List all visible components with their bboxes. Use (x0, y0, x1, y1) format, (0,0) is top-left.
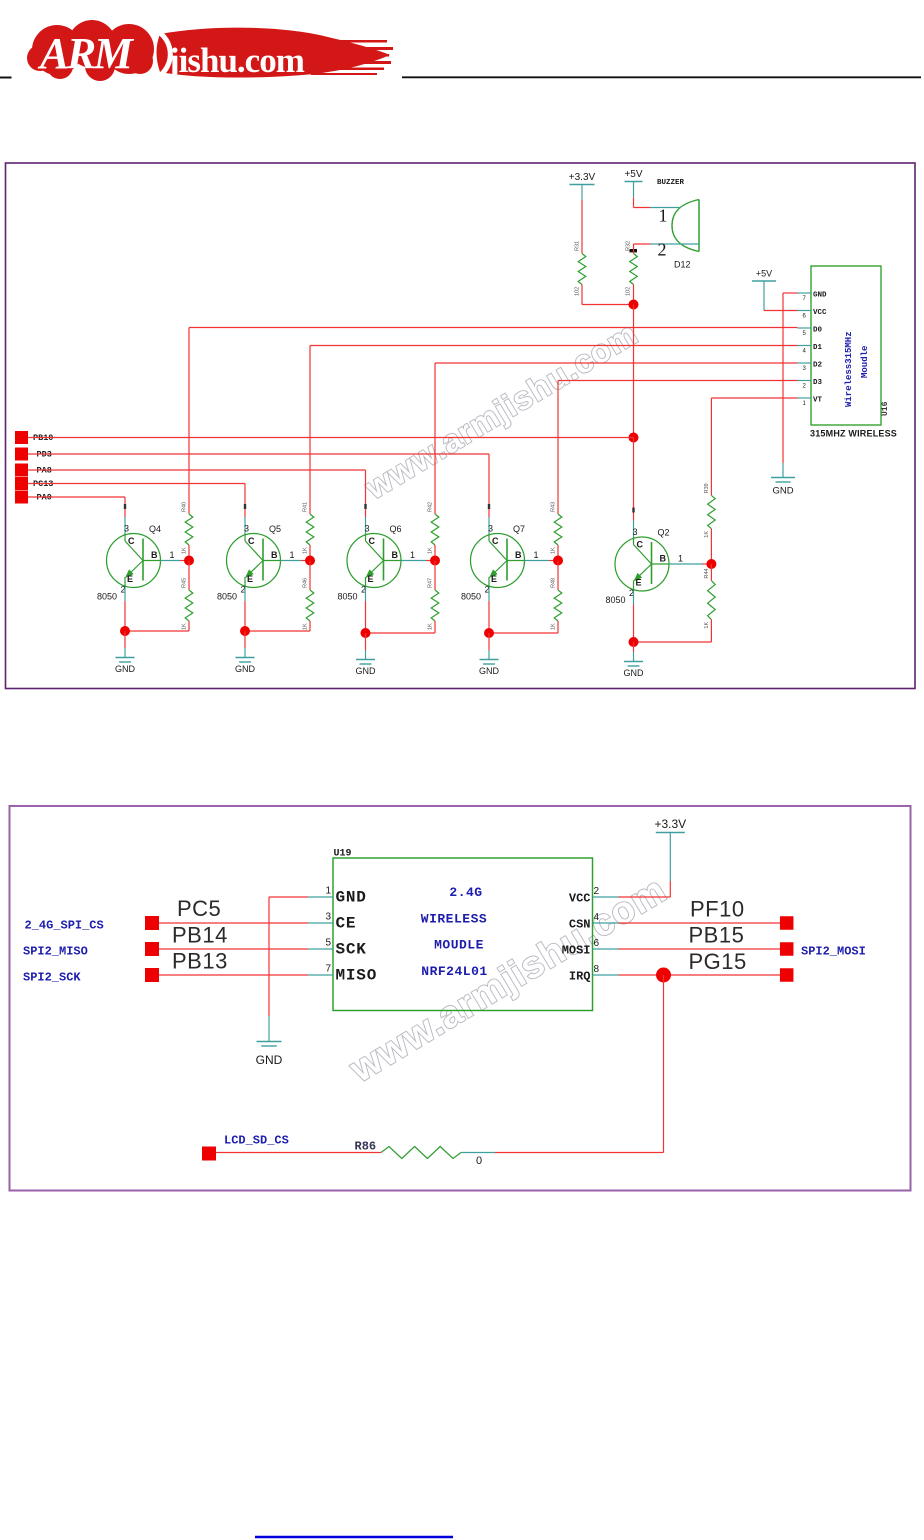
resistor R32 (626, 241, 638, 296)
wire PB10 to node B (28, 437, 634, 439)
svg-text:1K: 1K (551, 547, 557, 554)
wire R86 to LCD_SD_CS (216, 1152, 381, 1154)
wire +3.3V to R31 (581, 200, 583, 254)
U16 pin 5 D0 (798, 327, 823, 338)
wire R42 to base node (434, 545, 436, 561)
svg-text:D3: D3 (813, 379, 823, 387)
module U16 315MHZ WIRELESS (810, 266, 897, 439)
wire +5V to U16 VCC (764, 310, 798, 312)
svg-text:+3.3V: +3.3V (569, 172, 596, 183)
net label LCD_SD_CS (202, 1134, 289, 1161)
schematic frame 1 (6, 163, 916, 689)
svg-text:GND: GND (772, 486, 793, 497)
svg-text:Q5: Q5 (269, 524, 281, 534)
wire R39 to base node (710, 529, 712, 564)
wire emitter Q4 (124, 588, 126, 632)
resistor R46 (303, 578, 314, 630)
svg-text:1: 1 (290, 550, 295, 560)
wire R31 to node A (582, 285, 633, 305)
svg-text:8050: 8050 (461, 592, 481, 602)
svg-text:jishu.com: jishu.com (167, 41, 305, 80)
svg-text:R41: R41 (303, 502, 309, 512)
svg-text:R31: R31 (575, 241, 581, 251)
wire bus D2 (435, 363, 798, 514)
net label SPI2_SCK (23, 968, 159, 985)
svg-text:PC5: PC5 (177, 896, 221, 921)
svg-text:VCC: VCC (569, 892, 591, 906)
svg-text:2.4G: 2.4G (449, 885, 482, 900)
svg-text:1: 1 (659, 206, 668, 226)
wire bus D3 (558, 381, 798, 515)
net square PG15 (780, 968, 794, 982)
svg-text:1K: 1K (428, 547, 434, 554)
Q4 base wire (161, 560, 190, 562)
svg-text:E: E (247, 574, 253, 584)
svg-text:GND: GND (336, 889, 367, 907)
svg-text:C: C (369, 536, 376, 546)
svg-text:8: 8 (594, 964, 600, 975)
wire SCK net (159, 948, 308, 950)
svg-text:R39: R39 (704, 483, 710, 493)
svg-text:B: B (392, 550, 399, 560)
svg-text:D12: D12 (674, 260, 691, 270)
node Q6 emitter junction (361, 628, 371, 638)
wire base node to R45 (188, 561, 190, 591)
node Q2 base junction (706, 559, 716, 569)
svg-text:Q6: Q6 (390, 524, 402, 534)
svg-text:4: 4 (803, 349, 807, 355)
svg-text:D1: D1 (813, 344, 823, 352)
svg-text:PF10: PF10 (690, 897, 745, 922)
wire IRQ net (619, 974, 781, 976)
svg-text:R86: R86 (355, 1140, 377, 1154)
svg-text:www.armjishu.com: www.armjishu.com (358, 315, 644, 507)
header rule right (402, 76, 921, 78)
svg-text:3: 3 (365, 524, 370, 534)
svg-text:1K: 1K (704, 531, 710, 538)
svg-text:GND: GND (235, 664, 256, 674)
wire R41 to base node (309, 545, 311, 561)
svg-text:R42: R42 (428, 502, 434, 512)
U19 pin 7 MISO (308, 964, 377, 985)
U19 pin 2 VCC (569, 886, 619, 906)
node Q7 base junction (553, 556, 563, 566)
wire R40 to base node (188, 545, 190, 561)
Q5 base wire (281, 560, 311, 562)
resistor R86 (355, 1140, 483, 1168)
svg-text:+5V: +5V (624, 169, 642, 180)
power +3.3V (569, 172, 596, 200)
transistor Q4 (97, 504, 175, 602)
svg-text:7: 7 (325, 964, 331, 975)
svg-text:3: 3 (325, 912, 331, 923)
wire PC13 to Q5 collector (28, 484, 245, 518)
resistor R42 (428, 502, 439, 554)
Q6 base wire (401, 560, 435, 562)
svg-text:D2: D2 (813, 362, 823, 370)
svg-text:1: 1 (803, 401, 807, 407)
svg-text:R46: R46 (303, 578, 309, 588)
schematic frame 2 (10, 806, 911, 1191)
svg-text:3: 3 (633, 527, 638, 537)
wire CE net (159, 922, 308, 924)
svg-text:2: 2 (658, 240, 667, 260)
svg-text:R32: R32 (626, 241, 632, 251)
svg-text:GND: GND (356, 666, 377, 676)
ground Q7 (488, 633, 490, 650)
node A junction (629, 300, 639, 310)
svg-text:2: 2 (594, 886, 600, 897)
wire base node to R47 (434, 561, 436, 591)
svg-text:Moudle: Moudle (860, 346, 870, 378)
svg-text:1: 1 (325, 886, 331, 897)
svg-text:3: 3 (803, 366, 807, 372)
svg-text:IRQ: IRQ (569, 970, 591, 984)
U16 pin 7 GND (798, 292, 828, 303)
module U19 NRF24L01 (333, 849, 593, 1011)
svg-text:SPI2_MISO: SPI2_MISO (23, 945, 88, 959)
svg-text:MISO: MISO (336, 967, 378, 985)
resistor R40 (182, 502, 193, 554)
net label PA0 (15, 491, 52, 504)
node Q5 emitter junction (240, 626, 250, 636)
svg-text:1: 1 (170, 550, 175, 560)
net label SPI2_MISO (23, 942, 159, 959)
svg-text:R48: R48 (551, 578, 557, 588)
resistor R39 (704, 483, 715, 537)
wire R48 to emitter node (489, 621, 558, 633)
footer link rule (255, 1536, 453, 1539)
wire R47 to emitter node (366, 621, 436, 633)
wire bus D0 (189, 328, 798, 515)
svg-text:1K: 1K (551, 623, 557, 630)
wire node A to node B (633, 305, 635, 438)
svg-text:8050: 8050 (606, 595, 626, 605)
svg-text:VCC: VCC (813, 309, 827, 317)
svg-text:CE: CE (336, 915, 357, 933)
resistor R44 (704, 569, 715, 629)
U19 pin 5 SCK (308, 938, 367, 959)
resistor R48 (551, 578, 562, 630)
ground Q2 (633, 642, 635, 652)
wire buzzer pin 2 to R32 (634, 244, 651, 254)
wire U16 GND to ground (783, 293, 798, 463)
svg-text:R47: R47 (428, 578, 434, 588)
buzzer D12 (650, 179, 699, 270)
net label PB10 (15, 431, 53, 444)
svg-text:SPI2_SCK: SPI2_SCK (23, 971, 81, 985)
svg-text:8050: 8050 (338, 592, 358, 602)
wire +3.3V to U19 VCC (619, 881, 671, 897)
node Q4 emitter junction (120, 626, 130, 636)
wire PD3 to Q7 collector (28, 454, 489, 517)
svg-text:GND: GND (479, 666, 500, 676)
wire bus D1 (310, 346, 798, 515)
svg-text:D0: D0 (813, 327, 823, 335)
svg-text:5: 5 (325, 938, 331, 949)
svg-text:GND: GND (256, 1053, 283, 1067)
header rule left (0, 77, 12, 79)
svg-text:1K: 1K (303, 547, 309, 554)
wire U19 GND to ground (269, 897, 308, 1016)
svg-text:GND: GND (115, 664, 136, 674)
logo ARMjishu.com (27, 20, 393, 81)
svg-text:WIRELESS: WIRELESS (421, 912, 487, 927)
Q7 base wire (525, 560, 559, 562)
svg-text:315MHZ WIRELESS: 315MHZ WIRELESS (810, 429, 897, 439)
wire base node to R48 (557, 561, 559, 591)
resistor R31 (575, 241, 586, 296)
U16 pin 1 VT (798, 397, 823, 408)
svg-text:102: 102 (575, 287, 581, 296)
ground Q5 (244, 631, 246, 648)
svg-text:B: B (271, 550, 278, 560)
wire CSN net (619, 922, 781, 924)
svg-text:PB14: PB14 (172, 923, 228, 948)
wire R46 to emitter node (245, 621, 310, 631)
svg-text:6: 6 (594, 938, 600, 949)
svg-text:E: E (636, 578, 642, 588)
svg-text:1K: 1K (428, 623, 434, 630)
wire emitter Q2 (633, 591, 635, 642)
U19 pin 1 GND (308, 886, 367, 907)
svg-text:7: 7 (803, 296, 807, 302)
svg-text:PG15: PG15 (689, 949, 747, 974)
svg-text:E: E (368, 574, 374, 584)
svg-text:2: 2 (803, 384, 807, 390)
wire base node to R46 (309, 561, 311, 591)
wire R45 to emitter node (125, 621, 189, 631)
svg-text:1K: 1K (704, 622, 710, 629)
svg-text:C: C (637, 540, 644, 550)
svg-text:E: E (127, 574, 133, 584)
svg-text:B: B (660, 554, 667, 564)
resistor R47 (428, 578, 439, 630)
power +5V for U16 (752, 269, 776, 311)
svg-text:R40: R40 (182, 502, 188, 512)
net label PD3 (15, 448, 52, 461)
svg-text:6: 6 (803, 314, 807, 320)
svg-text:www.armjishu.com: www.armjishu.com (342, 869, 674, 1091)
wire IRQ to R86 (461, 975, 664, 1153)
wire base node to R44 (710, 564, 712, 581)
node B junction (629, 433, 639, 443)
ground for U16 (782, 463, 784, 478)
node Q2 emitter junction (629, 637, 639, 647)
node IRQ junction (656, 968, 671, 983)
svg-text:3: 3 (244, 524, 249, 534)
transistor Q7 (461, 504, 539, 602)
svg-text:B: B (151, 550, 158, 560)
wire MISO net (159, 974, 308, 976)
svg-text:R43: R43 (551, 502, 557, 512)
svg-text:Q2: Q2 (658, 528, 670, 538)
svg-text:LCD_SD_CS: LCD_SD_CS (224, 1134, 289, 1148)
svg-text:C: C (492, 536, 499, 546)
svg-text:Wireless315MHz: Wireless315MHz (844, 331, 854, 407)
power +5V buzzer (624, 169, 642, 198)
U19 pin 8 IRQ (569, 964, 619, 984)
svg-text:3: 3 (124, 524, 129, 534)
net label PA8 (15, 464, 52, 477)
svg-text:102: 102 (626, 287, 632, 296)
svg-text:8050: 8050 (97, 592, 117, 602)
wire bus VT (711, 398, 797, 495)
wire R43 to base node (557, 545, 559, 561)
svg-text:PB13: PB13 (172, 949, 228, 974)
svg-text:5: 5 (803, 331, 807, 337)
svg-text:SPI2_MOSI: SPI2_MOSI (801, 945, 866, 959)
svg-text:+3.3V: +3.3V (654, 817, 686, 831)
wire PA0 to Q4 collector (28, 497, 125, 517)
svg-text:E: E (491, 574, 497, 584)
wire R32 to node A (633, 285, 635, 305)
U16 pin 4 D1 (798, 344, 823, 355)
wire +5V to buzzer pin 1 (634, 198, 651, 208)
U19 pin 6 MOSI (562, 938, 619, 958)
resistor R43 (551, 502, 562, 554)
svg-text:Q4: Q4 (149, 524, 161, 534)
node Q6 base junction (430, 556, 440, 566)
U16 pin 2 D3 (798, 379, 823, 390)
wire R44 to emitter node (634, 620, 712, 642)
U16 pin 6 VCC (798, 309, 828, 320)
svg-text:4: 4 (594, 912, 600, 923)
svg-text:U16: U16 (881, 401, 890, 416)
transistor Q5 (217, 504, 295, 602)
svg-text:1: 1 (678, 554, 683, 564)
U19 pin 3 CE (308, 912, 356, 933)
Q2 base wire (669, 563, 711, 565)
wire node B to Q2 collector (633, 438, 635, 521)
svg-text:8050: 8050 (217, 592, 237, 602)
svg-text:GND: GND (813, 292, 827, 300)
buzzer minus mark (630, 249, 638, 252)
wire MOSI net (619, 948, 781, 950)
svg-text:MOUDLE: MOUDLE (434, 938, 484, 953)
svg-text:CSN: CSN (569, 918, 591, 932)
wire emitter Q5 (244, 588, 246, 632)
svg-text:1K: 1K (182, 547, 188, 554)
svg-text:C: C (128, 536, 135, 546)
svg-text:C: C (248, 536, 255, 546)
net square PB15 (780, 942, 794, 956)
svg-text:2_4G_SPI_CS: 2_4G_SPI_CS (25, 919, 104, 933)
svg-text:VT: VT (813, 397, 823, 405)
svg-text:GND: GND (624, 668, 645, 678)
resistor R41 (303, 502, 314, 554)
transistor Q6 (338, 504, 416, 602)
svg-text:BUZZER: BUZZER (657, 179, 685, 187)
node Q7 emitter junction (484, 628, 494, 638)
node Q5 base junction (305, 556, 315, 566)
svg-text:NRF24L01: NRF24L01 (421, 964, 487, 979)
svg-text:R44: R44 (704, 569, 710, 579)
svg-text:1: 1 (534, 550, 539, 560)
svg-text:1K: 1K (182, 623, 188, 630)
svg-text:PB15: PB15 (689, 923, 745, 948)
svg-text:U19: U19 (334, 849, 352, 860)
svg-text:R45: R45 (182, 578, 188, 588)
U19 pin 4 CSN (569, 912, 619, 932)
svg-text:MOSI: MOSI (562, 944, 591, 958)
svg-text:3: 3 (488, 524, 493, 534)
svg-text:Q7: Q7 (513, 524, 525, 534)
transistor Q2 (606, 508, 684, 606)
svg-text:B: B (515, 550, 522, 560)
power +3.3V for U19 (654, 817, 686, 881)
ground Q6 (365, 633, 367, 650)
svg-text:1K: 1K (303, 623, 309, 630)
svg-text:0: 0 (476, 1155, 482, 1167)
U16 pin 3 D2 (798, 362, 823, 373)
node Q4 base junction (184, 556, 194, 566)
svg-text:SCK: SCK (336, 941, 367, 959)
ground Q4 (124, 631, 126, 648)
net label 2_4G_SPI_CS (25, 916, 160, 933)
svg-text:+5V: +5V (756, 269, 772, 279)
resistor R45 (182, 578, 193, 630)
wire PA8 to Q6 collector (28, 470, 366, 517)
ground for U19 (268, 1016, 270, 1042)
wire emitter Q6 (365, 588, 367, 634)
wire emitter Q7 (488, 588, 490, 634)
net label PC13 (15, 477, 53, 490)
svg-text:1: 1 (410, 550, 415, 560)
svg-text:ARM: ARM (37, 29, 135, 78)
net square PF10 (780, 916, 794, 930)
